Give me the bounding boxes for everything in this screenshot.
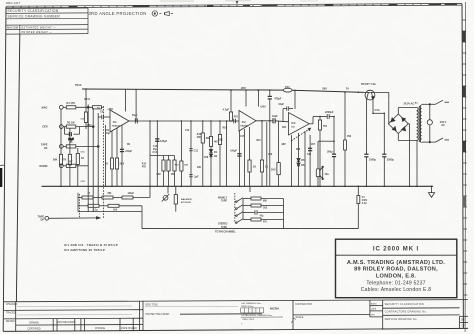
svg-text:240V: 240V	[362, 199, 368, 202]
svg-text:47K: 47K	[62, 159, 67, 162]
svg-text:C15: C15	[153, 146, 158, 148]
svg-text:DRG TITLE: DRG TITLE	[145, 304, 158, 307]
svg-text:USED ON N: USED ON N	[242, 319, 255, 321]
svg-text:R24: R24	[282, 126, 287, 129]
svg-text:47µ: 47µ	[260, 215, 265, 218]
svg-text:SCALE: SCALE	[296, 316, 304, 319]
svg-text:22K: 22K	[197, 167, 202, 169]
svg-text:120µF: 120µF	[128, 193, 135, 195]
svg-text:0.2A: 0.2A	[362, 202, 367, 205]
svg-text:2200µF: 2200µF	[325, 111, 334, 114]
svg-text:89 RIDLEY ROAD, DALSTON,: 89 RIDLEY ROAD, DALSTON,	[354, 267, 438, 273]
svg-text:470 ΩLIN: 470 ΩLIN	[181, 201, 191, 204]
svg-text:C17: C17	[240, 136, 245, 138]
svg-text:CONTRACTOR: CONTRACTOR	[295, 303, 312, 306]
svg-text:C19: C19	[268, 154, 273, 156]
svg-text:OP: OP	[40, 219, 44, 222]
svg-text:15K: 15K	[171, 173, 176, 176]
svg-text:+50µF: +50µF	[125, 150, 133, 153]
svg-text:TRACED: TRACED	[6, 312, 16, 315]
svg-text:TAPE: TAPE	[221, 200, 227, 203]
svg-text:TO RH CHANNEL: TO RH CHANNEL	[215, 230, 236, 233]
svg-text:TBA641: TBA641	[112, 125, 121, 128]
svg-text:10µF: 10µF	[132, 114, 138, 117]
svg-text:DRAWN: DRAWN	[6, 320, 15, 323]
svg-text:SECURITY CLASSIFICATION: SECURITY CLASSIFICATION	[8, 9, 59, 13]
svg-text:CHECKED: CHECKED	[6, 304, 18, 306]
svg-text:TR1A: TR1A	[75, 84, 82, 87]
svg-text:PRINTED WEIGHT —: PRINTED WEIGHT —	[22, 30, 53, 34]
svg-text:3RD ANGLE PROJECTION: 3RD ANGLE PROJECTION	[89, 11, 147, 16]
svg-text:+26V: +26V	[107, 108, 113, 111]
svg-text:+50µF: +50µF	[230, 150, 238, 153]
svg-text:1K: 1K	[265, 166, 268, 169]
svg-text:FS2: FS2	[285, 86, 290, 89]
svg-text:TR4 BT 7.3A: TR4 BT 7.3A	[361, 83, 376, 86]
svg-text:2500µ: 2500µ	[387, 158, 395, 161]
svg-text:C11: C11	[194, 150, 199, 153]
svg-text:AMSD: AMSD	[371, 302, 377, 305]
svg-text:DRAWN: DRAWN	[29, 321, 39, 324]
svg-text:R16: R16	[223, 128, 228, 130]
svg-text:48V: 48V	[281, 143, 286, 146]
svg-text:C21: C21	[307, 154, 312, 156]
svg-text:FS3: FS3	[347, 136, 352, 138]
svg-text:2M2: 2M2	[87, 125, 92, 127]
svg-text:SERVICE DRAWING NUMBER: SERVICE DRAWING NUMBER	[8, 14, 61, 18]
svg-text:MAG: MAG	[42, 106, 48, 109]
svg-text:0.1µ: 0.1µ	[93, 209, 98, 211]
svg-text:MONO 2: MONO 2	[218, 197, 228, 199]
svg-text:R1 47K: R1 47K	[67, 102, 76, 105]
svg-text:DETAIL ALIGN. DRAWING Nos.: DETAIL ALIGN. DRAWING Nos.	[242, 314, 274, 317]
svg-text:1K: 1K	[81, 157, 84, 160]
svg-text:1K: 1K	[253, 166, 256, 169]
svg-text:MAX DIM: MAX DIM	[7, 26, 18, 30]
svg-text:PROTECTIVE FINISH: PROTECTIVE FINISH	[145, 313, 169, 316]
svg-text:CONTRACTORS DRAWING No.: CONTRACTORS DRAWING No.	[385, 310, 427, 313]
svg-text:2K7: 2K7	[311, 144, 316, 146]
svg-text:Cables: Amselec London E.8: Cables: Amselec London E.8	[361, 287, 432, 293]
svg-text:1K0: 1K0	[113, 209, 118, 211]
svg-text:RADIO: RADIO	[39, 165, 47, 168]
svg-text:C1B: C1B	[81, 119, 86, 121]
svg-text:MCRA: MCRA	[270, 307, 280, 311]
svg-text:IC 2000 MK I: IC 2000 MK I	[373, 246, 419, 252]
svg-text:G.A. DRAWING Nos.: G.A. DRAWING Nos.	[241, 302, 262, 305]
svg-text:R12: R12	[197, 134, 202, 136]
svg-text:IC3: IC3	[292, 122, 297, 125]
svg-text:IC3 AMP/TONE 2X TR5/LP: IC3 AMP/TONE 2X TR5/LP	[64, 248, 105, 252]
svg-text:1K5: 1K5	[271, 168, 276, 171]
svg-text:15Ω: 15Ω	[325, 173, 330, 176]
svg-text:25µ: 25µ	[153, 149, 158, 151]
svg-text:CER: CER	[42, 126, 47, 129]
svg-text:560: 560	[157, 173, 162, 176]
svg-text:C1D: C1D	[81, 181, 86, 183]
svg-text:7A: 7A	[346, 88, 349, 91]
svg-text:+26V: +26V	[260, 106, 266, 109]
svg-text:DATE: DATE	[371, 308, 377, 311]
svg-text:R3 1M: R3 1M	[67, 121, 74, 124]
svg-text:56K: 56K	[197, 137, 202, 139]
svg-text:DATE ISSUED: DATE ISSUED	[121, 327, 137, 330]
svg-text:470: 470	[234, 116, 239, 119]
svg-text:10µF: 10µF	[272, 115, 278, 118]
svg-text:STEREO: STEREO	[218, 224, 228, 226]
svg-text:475µF: 475µF	[274, 98, 282, 101]
svg-text:AC: AC	[441, 124, 445, 127]
svg-text:4.7µF: 4.7µF	[223, 109, 230, 112]
svg-text:CERTIFIED: CERTIFIED	[27, 328, 40, 331]
svg-text:0.5A: 0.5A	[374, 109, 379, 112]
svg-text:15K: 15K	[218, 139, 223, 142]
svg-text:SHT: SHT	[461, 320, 466, 322]
svg-text:47K: 47K	[142, 166, 147, 169]
svg-text:C14: C14	[153, 151, 158, 154]
svg-text:120µF: 120µF	[160, 140, 168, 143]
svg-text:20.5V AC: 20.5V AC	[404, 102, 415, 105]
svg-text:1K8: 1K8	[204, 157, 209, 159]
svg-text:R21: R21	[257, 140, 262, 142]
svg-text:1000µ: 1000µ	[369, 158, 377, 161]
svg-text:IC1: IC1	[113, 121, 118, 124]
svg-text:CR14: CR14	[84, 98, 91, 101]
svg-text:10µF: 10µF	[278, 103, 284, 106]
svg-text:1K2: 1K2	[263, 207, 268, 209]
svg-text:C10: C10	[185, 130, 190, 132]
svg-text:BALANCE: BALANCE	[181, 198, 192, 201]
svg-text:CHANGE: CHANGE	[95, 327, 106, 330]
svg-text:R15: R15	[142, 164, 147, 166]
svg-text:LONDON, E.8.: LONDON, E.8.	[376, 273, 416, 279]
svg-text:10K: 10K	[184, 164, 188, 166]
svg-text:26V: 26V	[322, 86, 327, 90]
svg-text:16µ: 16µ	[106, 133, 111, 135]
svg-text:MOD RECORDS: MOD RECORDS	[57, 321, 76, 324]
svg-text:56K: 56K	[53, 159, 58, 162]
svg-text:TAPE: TAPE	[221, 226, 227, 229]
svg-text:Telephone: 01-249 5237: Telephone: 01-249 5237	[366, 280, 425, 286]
svg-text:DRG 1417: DRG 1417	[6, 1, 21, 5]
svg-text:680: 680	[206, 137, 211, 140]
svg-text:AC: AC	[415, 101, 419, 104]
svg-text:R26: R26	[296, 149, 301, 151]
svg-text:TBA641: TBA641	[240, 124, 249, 127]
svg-text:ESTIMATED WEIGHT —: ESTIMATED WEIGHT —	[22, 26, 57, 30]
svg-text:A.M.S. TRADING (AMSTRAD) LT: A.M.S. TRADING (AMSTRAD) LTD.	[347, 260, 445, 266]
svg-text:IC2: IC2	[242, 121, 247, 124]
svg-text:1K: 1K	[105, 163, 108, 166]
svg-text:SECURITY CLASSIFICATION: SECURITY CLASSIFICATION	[385, 303, 424, 306]
svg-text:.1µF: .1µF	[194, 176, 200, 179]
svg-text:750: 750	[323, 125, 328, 128]
svg-text:IC1 AND IC2 - TBA641 B 70 RF/L: IC1 AND IC2 - TBA641 B 70 RF/LP	[64, 243, 118, 247]
svg-text:300µ: 300µ	[327, 151, 333, 154]
svg-text:C1C: C1C	[81, 152, 86, 154]
svg-text:SERVICE DRAWING No.: SERVICE DRAWING No.	[385, 318, 418, 321]
svg-text:2K2: 2K2	[120, 163, 125, 166]
svg-text:RF: RF	[44, 147, 48, 150]
svg-text:26V: 26V	[241, 86, 246, 90]
